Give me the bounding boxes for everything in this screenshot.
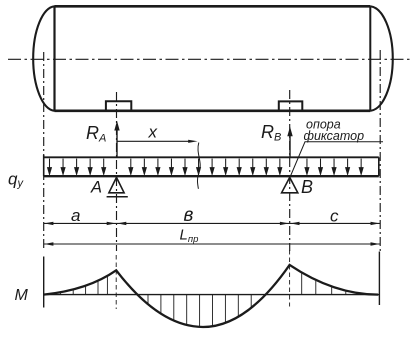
tank right edge line — [369, 6, 371, 111]
tank shell top line — [55, 5, 371, 8]
dimension line a-в-c — [44, 222, 381, 225]
support A centerline — [116, 92, 118, 251]
left saddle pad — [106, 101, 131, 110]
beam top line — [44, 156, 379, 158]
section break wavy line at x — [197, 143, 200, 189]
dimension line L_пр — [44, 242, 381, 245]
beam right end — [378, 157, 380, 176]
tank horizontal centerline — [8, 58, 411, 60]
dashed ordinate at A — [115, 255, 117, 309]
distributed load q_y arrows — [48, 159, 363, 175]
right cap tangent / extension centerline — [379, 50, 381, 251]
right saddle pad — [279, 101, 303, 110]
svg-text:c: c — [330, 207, 339, 226]
support B triangle — [282, 177, 298, 192]
dimension line x — [117, 140, 198, 143]
leader line to support B — [290, 142, 383, 177]
moment diagram baseline — [44, 294, 380, 296]
dashed ordinate at B — [289, 250, 291, 307]
svg-text:M: M — [15, 287, 29, 304]
support A ground line — [107, 196, 128, 198]
reaction arrow R_B — [287, 127, 292, 157]
moment diagram left axis — [43, 257, 45, 308]
moment diagram right axis — [378, 252, 380, 306]
svg-text:в: в — [184, 205, 194, 226]
beam bottom line — [44, 175, 379, 177]
tank left end cap — [33, 6, 54, 111]
svg-text:A: A — [90, 179, 102, 197]
tank shell bottom line — [55, 110, 371, 113]
svg-text:x: x — [148, 123, 158, 142]
reaction arrow R_A — [114, 121, 119, 157]
beam left end — [43, 155, 45, 176]
support B centerline — [289, 90, 291, 251]
svg-text:a: a — [71, 206, 80, 225]
left cap tangent / extension centerline — [43, 52, 45, 251]
moment curve — [44, 265, 379, 327]
tank left edge line — [53, 6, 55, 111]
moment diagram hatching — [60, 272, 360, 327]
support A triangle — [109, 177, 124, 192]
svg-text:фиксатор: фиксатор — [304, 129, 365, 143]
svg-text:В: В — [301, 177, 313, 197]
tank right end cap — [370, 6, 392, 111]
